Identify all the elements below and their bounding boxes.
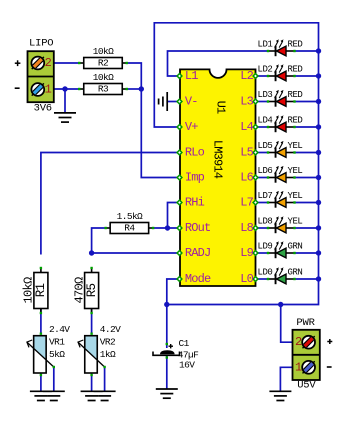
- svg-text:RLo: RLo: [185, 146, 205, 160]
- svg-text:YEL: YEL: [288, 217, 303, 227]
- svg-text:VR2: VR2: [100, 336, 116, 347]
- svg-text:L6: L6: [240, 171, 253, 185]
- svg-text:470Ω: 470Ω: [72, 277, 86, 304]
- svg-text:47µF: 47µF: [178, 349, 199, 360]
- svg-text:2.4V: 2.4V: [49, 324, 70, 335]
- svg-text:RED: RED: [288, 65, 303, 75]
- svg-text:L5: L5: [240, 146, 253, 160]
- svg-text:GRN: GRN: [288, 268, 303, 278]
- svg-text:LD7: LD7: [258, 191, 273, 201]
- svg-text:YEL: YEL: [288, 191, 303, 201]
- svg-text:LD3: LD3: [258, 90, 273, 100]
- svg-text:R5: R5: [85, 284, 99, 298]
- svg-text:L4: L4: [240, 120, 253, 134]
- svg-text:LM3914: LM3914: [210, 140, 224, 179]
- svg-text:PWR: PWR: [296, 317, 315, 329]
- svg-text:RADJ: RADJ: [185, 246, 210, 260]
- svg-text:5kΩ: 5kΩ: [49, 349, 65, 360]
- svg-text:YEL: YEL: [288, 141, 303, 151]
- svg-text:C1: C1: [179, 338, 190, 349]
- svg-text:LD8: LD8: [258, 217, 273, 227]
- svg-text:16V: 16V: [179, 360, 195, 371]
- svg-text:YEL: YEL: [288, 166, 303, 176]
- svg-text:L8: L8: [240, 221, 253, 235]
- svg-text:1.5kΩ: 1.5kΩ: [117, 211, 143, 222]
- svg-text:RHi: RHi: [185, 196, 205, 210]
- svg-text:U1: U1: [214, 101, 228, 114]
- svg-text:LD1: LD1: [258, 40, 273, 50]
- svg-text:L9: L9: [240, 246, 253, 260]
- svg-text:2: 2: [45, 56, 52, 70]
- svg-text:LIPO: LIPO: [29, 37, 53, 49]
- svg-text:10kΩ: 10kΩ: [22, 277, 36, 304]
- svg-text:LD2: LD2: [258, 65, 273, 75]
- svg-text:LD6: LD6: [258, 166, 273, 176]
- svg-text:4.2V: 4.2V: [100, 324, 121, 335]
- svg-text:RED: RED: [288, 90, 303, 100]
- svg-text:RED: RED: [288, 40, 303, 50]
- svg-text:2: 2: [295, 335, 302, 349]
- svg-text:L7: L7: [240, 196, 253, 210]
- svg-text:L2: L2: [240, 69, 253, 83]
- svg-text:LD0: LD0: [258, 268, 273, 278]
- svg-text:R3: R3: [98, 84, 109, 95]
- svg-text:10kΩ: 10kΩ: [93, 72, 114, 83]
- svg-text:R2: R2: [98, 58, 109, 69]
- svg-text:LD5: LD5: [258, 141, 273, 151]
- svg-text:U5V: U5V: [297, 380, 316, 392]
- svg-text:LD4: LD4: [258, 116, 273, 126]
- svg-text:R4: R4: [124, 223, 135, 234]
- svg-text:L3: L3: [240, 95, 253, 109]
- svg-text:GRN: GRN: [288, 242, 303, 252]
- svg-text:Imp: Imp: [185, 171, 205, 185]
- svg-text:LD9: LD9: [258, 242, 273, 252]
- svg-text:10kΩ: 10kΩ: [93, 46, 114, 57]
- svg-text:L0: L0: [240, 272, 253, 286]
- svg-text:Mode: Mode: [185, 272, 211, 286]
- svg-text:R1: R1: [34, 284, 48, 298]
- svg-text:L1: L1: [185, 69, 198, 83]
- svg-text:ROut: ROut: [185, 221, 210, 235]
- svg-text:1kΩ: 1kΩ: [100, 349, 116, 360]
- svg-text:1: 1: [295, 360, 302, 374]
- svg-text:V+: V+: [185, 120, 198, 134]
- svg-text:RED: RED: [288, 116, 303, 126]
- svg-text:V-: V-: [185, 95, 198, 109]
- svg-text:VR1: VR1: [49, 336, 65, 347]
- svg-text:1: 1: [45, 83, 52, 97]
- svg-text:3V6: 3V6: [34, 103, 52, 115]
